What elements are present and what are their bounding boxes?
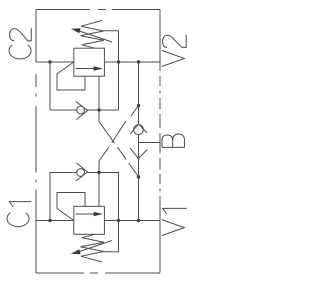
node: junction rail / drain vertical bottom <box>117 219 120 222</box>
node: junction C1 rail / pilot branch <box>48 219 51 222</box>
port label V1 <box>162 208 187 235</box>
check valve CV1 seat <box>76 101 88 119</box>
counterbalance valve CB2 body <box>74 206 105 234</box>
wire: B port line <box>139 142 161 144</box>
node: junction rail / drain vertical <box>117 60 120 63</box>
shuttle valve vertical wire upper <box>138 62 140 124</box>
CB2 spring <box>81 234 105 262</box>
shuttle valve upper seat <box>130 124 147 134</box>
enclosure boundary left edge <box>35 10 37 274</box>
port label V2 <box>162 35 186 67</box>
CB1 adjustment arrow <box>78 31 112 43</box>
node: junction CV1 line / main pilot vertical <box>97 108 100 111</box>
port label B <box>162 134 184 147</box>
check valve CV1 ball <box>77 106 85 114</box>
CB1 flow arrow <box>76 68 95 70</box>
wire: C1 port rail left segment <box>36 220 74 222</box>
wire: V2 port rail right segment <box>104 61 160 63</box>
node: junction CV2 line / main pilot vertical <box>97 171 100 174</box>
node: pilot attach on shuttle vertical lower <box>137 175 140 178</box>
CB2 flow arrow <box>76 213 95 215</box>
wire: CB1 pilot vertical from body <box>98 76 100 121</box>
CB2 adjustment arrow <box>78 241 112 253</box>
node: junction C2 rail / pilot branch <box>48 60 51 63</box>
wire: CB2 spring chamber pilot line <box>103 221 119 252</box>
check valve CV2 seat <box>76 163 88 181</box>
wire: CV1 outlet to drain vertical <box>88 109 119 111</box>
enclosure boundary (dash-dot) top edge <box>36 9 160 11</box>
node: junction rail / shuttle vertical <box>137 60 140 63</box>
port label C2 <box>9 28 31 59</box>
counterbalance valve CB1 body <box>74 48 105 76</box>
CB1 pilot piston pentagon <box>57 62 85 90</box>
enclosure boundary right edge <box>159 10 161 273</box>
port label C1 <box>7 202 31 227</box>
shuttle valve ball <box>134 125 144 135</box>
wire: CV2 outlet to drain vertical <box>88 173 119 221</box>
wire: C2 port rail left segment <box>36 61 74 63</box>
wire: CB2 pilot vertical from body <box>98 161 100 206</box>
CB2 pilot piston pentagon <box>57 193 85 221</box>
shuttle valve lower seat <box>130 148 147 158</box>
CB1 spring <box>81 21 105 49</box>
shuttle valve vertical wire lower <box>138 135 140 221</box>
node: junction rail / shuttle vertical bottom <box>137 219 140 222</box>
check valve CV2 ball <box>77 169 85 177</box>
wire: check valve CV1 inlet from C2 junction <box>50 62 77 110</box>
wire: spring chamber pilot line <box>103 31 119 110</box>
node: pilot attach on shuttle vertical upper <box>137 104 140 107</box>
pilot line X: diagonal A (top-left to bottom-right, dashed) <box>99 122 139 178</box>
wire: check valve CV2 inlet from C1 junction <box>50 173 77 221</box>
wire: V1 port rail right segment <box>104 220 160 222</box>
enclosure boundary bottom edge <box>36 272 160 274</box>
pilot line X: diagonal A' (top-right to bottom-left, dashed) <box>99 106 139 162</box>
